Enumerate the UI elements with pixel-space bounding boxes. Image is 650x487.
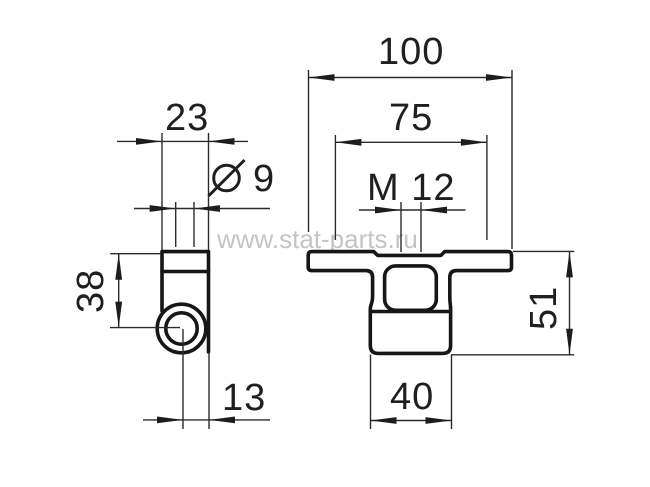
dimension 100 right arrow [486,74,512,81]
dimension M12 left arrow [375,207,401,214]
dimension 75 right extension line [486,135,488,240]
svg-text:www.stat-parts.ru: www.stat-parts.ru [216,224,418,254]
dimension 13 line [143,419,270,421]
dimension 75 right arrow [461,139,487,146]
dimension 38 top extension line [110,253,162,255]
diameter symbol for 9 [209,160,245,196]
dimension 75 left arrow [335,139,361,146]
svg-text:M 12: M 12 [367,167,455,209]
dimension 51 top extension line [513,250,574,252]
M12 left extension line [400,202,402,252]
dimension 51 line [569,251,571,354]
M12 right extension line [420,202,422,252]
dimension 100 left extension line [308,70,310,232]
dimension 51 up arrow [566,251,573,277]
dimension 100 line [309,77,513,79]
hole right extension line [193,202,195,247]
dimension 75 left extension line [334,135,336,240]
M12 hole rounded square [385,266,437,310]
svg-text:40: 40 [390,376,434,418]
dimension 38 up arrow [115,254,122,280]
dimension 13 left arrow [157,417,183,424]
dimension M12 line [359,209,466,211]
left view hole inner circle [166,313,197,344]
svg-text:75: 75 [389,97,433,139]
left view body left edge [160,272,164,312]
dimension 13 right extension line [208,352,210,429]
dimension 100 left arrow [309,74,335,81]
svg-text:9: 9 [253,158,275,200]
svg-text:13: 13 [222,377,266,419]
hole left extension line [175,202,177,247]
part outline [308,252,511,354]
svg-text:100: 100 [378,31,444,73]
dimension 23 left arrow [136,138,162,145]
dimension d9 right arrow [194,205,220,212]
svg-text:51: 51 [523,286,565,330]
dimension 100 right extension line [511,70,513,249]
dimension 23 left extension line [161,133,163,250]
dimension d9 left arrow [150,205,176,212]
dimension 40 right extension line [451,355,453,430]
vertical centerline of hole extended down [182,329,184,429]
dimension d9 line [134,208,270,210]
dimension 51 down arrow [566,329,573,355]
block top edge line [370,310,450,314]
left view flange rectangle [162,252,209,272]
left view boss outer circle [157,304,206,353]
left view body right edge [207,272,211,353]
dimension 23 right extension line [208,133,210,250]
dimension 13 right arrow [209,417,235,424]
svg-text:38: 38 [70,269,112,313]
dimension 40 left arrow [371,417,397,424]
dimension 40 right arrow [426,417,452,424]
dimension 40 left extension line [370,355,372,430]
dimension 38 down arrow [115,302,122,328]
dimension M12 right arrow [421,207,447,214]
dimension 23 line [117,140,248,142]
dimension 51 bottom extension line [452,354,575,356]
dimension 75 line [335,141,487,143]
dimension 40 line [371,420,452,422]
svg-text:23: 23 [165,97,209,139]
dimension 38 line [118,254,120,328]
dimension 23 right arrow [209,138,235,145]
horizontal centerline of hole [110,327,180,329]
